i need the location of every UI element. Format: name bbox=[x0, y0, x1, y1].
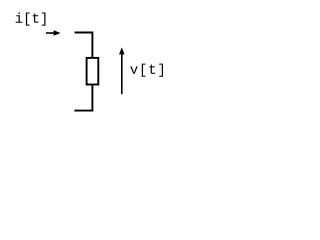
voltage reference arrow for v[t] bbox=[119, 47, 125, 94]
current reference arrow for i[t] bbox=[46, 30, 61, 36]
label i[t] bbox=[16, 13, 46, 26]
wire bottom (element down to corner, left terminal) bbox=[74, 85, 92, 111]
label v[t] bbox=[130, 64, 163, 77]
wire top (left terminal to corner, down into element) bbox=[75, 33, 93, 58]
two-terminal element (impedance box) bbox=[87, 58, 99, 85]
